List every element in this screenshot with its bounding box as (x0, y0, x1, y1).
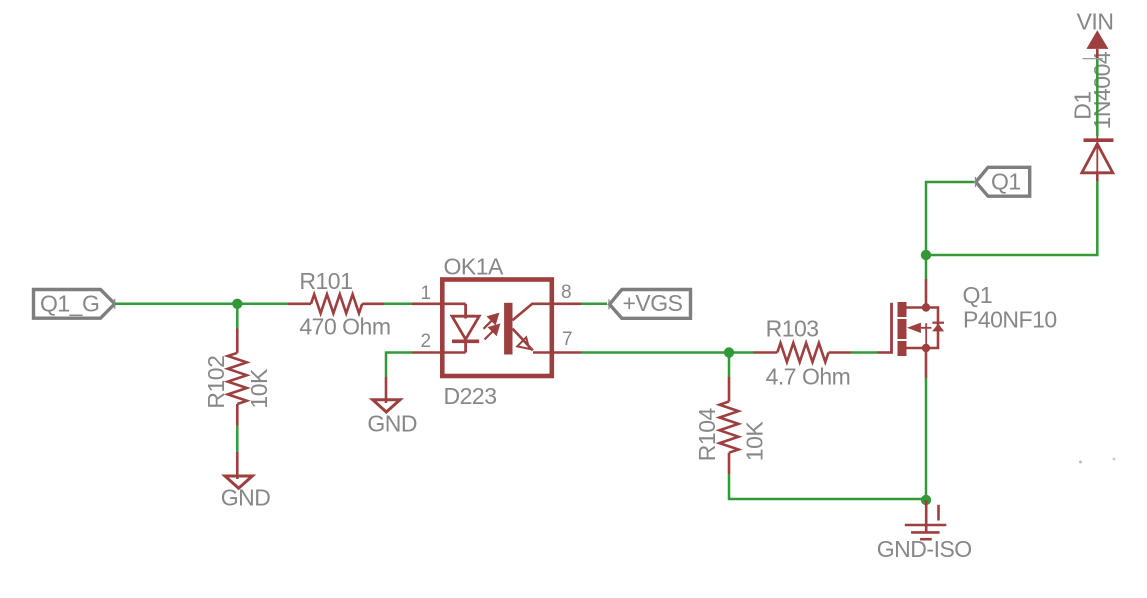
wire Q1_G to node A (115, 303, 289, 306)
resistor R101 (288, 294, 384, 313)
net flag Q1 (976, 167, 1030, 196)
svg-text:+VGS: +VGS (623, 290, 683, 316)
svg-text:Q1: Q1 (963, 282, 993, 308)
wire R102 to GND (236, 426, 239, 453)
wire R104 to ground rail (729, 474, 926, 499)
wire node B down to R104 (728, 353, 731, 378)
svg-text:470 Ohm: 470 Ohm (299, 313, 390, 339)
gate line (890, 303, 893, 354)
OK1A pin 2 line (412, 351, 466, 354)
svg-text:R102: R102 (203, 356, 229, 409)
drain rail (907, 308, 939, 349)
channel bars (898, 302, 907, 317)
ground GND (below R102) (221, 452, 271, 511)
svg-text:D223: D223 (444, 383, 497, 409)
svg-text:P40NF10: P40NF10 (963, 307, 1057, 333)
OK1A internal LED (452, 304, 479, 353)
resistor R104 (720, 377, 739, 474)
svg-text:2: 2 (421, 331, 432, 352)
ground GND (OK1A pin2) (367, 377, 417, 437)
svg-text:10K: 10K (246, 368, 272, 409)
node C junction (921, 250, 931, 260)
optocoupler OK1A box (442, 280, 552, 377)
wire node C up to Q1 flag (926, 182, 974, 255)
stray mark 1 (1079, 461, 1082, 464)
svg-text:R101: R101 (299, 268, 352, 294)
diode D1 (1069, 51, 1115, 181)
wire node C to D1 (926, 181, 1097, 255)
svg-text:GND-ISO: GND-ISO (877, 536, 972, 562)
svg-text:GND: GND (221, 485, 271, 511)
svg-text:8: 8 (561, 282, 572, 303)
wire OK1A pin2 to GND (386, 353, 412, 378)
svg-text:1: 1 (421, 283, 432, 304)
wire drain up to node C (925, 255, 928, 279)
svg-text:Q1_G: Q1_G (40, 290, 99, 316)
svg-text:1N4004: 1N4004 (1089, 51, 1115, 129)
wire pin 8 to +VGS flag (581, 303, 607, 306)
supply VIN (1077, 8, 1114, 58)
wire source down to ground rail (925, 378, 928, 501)
node D junction (921, 495, 931, 505)
body diode (932, 322, 944, 324)
node A junction (232, 299, 242, 309)
net flag Q1_G (34, 290, 115, 319)
net flag +VGS (609, 290, 691, 319)
svg-text:10K: 10K (742, 421, 768, 462)
svg-text:Q1: Q1 (991, 169, 1021, 195)
stray mark 2 (1113, 458, 1116, 461)
OK1A phototransistor (504, 303, 549, 355)
svg-text:GND: GND (367, 411, 417, 437)
OK1A pin 8 stub (550, 302, 582, 305)
svg-text:7: 7 (562, 329, 573, 350)
svg-text:4.7 Ohm: 4.7 Ohm (766, 363, 851, 389)
svg-text:R103: R103 (766, 316, 819, 342)
OK1A pin 7 stub (550, 351, 582, 354)
wire D1 to VIN (1096, 59, 1099, 136)
junction dots (922, 303, 930, 311)
OK1A light arrows (484, 314, 499, 339)
wire node A down to R102 (236, 304, 239, 329)
resistor R103 (754, 343, 851, 362)
source pin (925, 348, 928, 378)
svg-text:R104: R104 (694, 408, 720, 462)
transistor Q1 P40NF10 (878, 279, 1057, 378)
wire R103 to gate (851, 351, 878, 354)
svg-text:OK1A: OK1A (444, 254, 505, 280)
wire pin 7 to node B (581, 351, 754, 354)
resistor R102 (228, 329, 247, 426)
OK1A pin 1 line (412, 302, 466, 305)
svg-text:VIN: VIN (1077, 8, 1114, 34)
gate stub (878, 351, 892, 354)
wire R101 to OK1A pin 1 (384, 303, 412, 306)
ground GND-ISO (877, 500, 972, 562)
node B junction (724, 347, 734, 357)
drain pin (925, 279, 928, 308)
substrate arrow (907, 323, 921, 333)
